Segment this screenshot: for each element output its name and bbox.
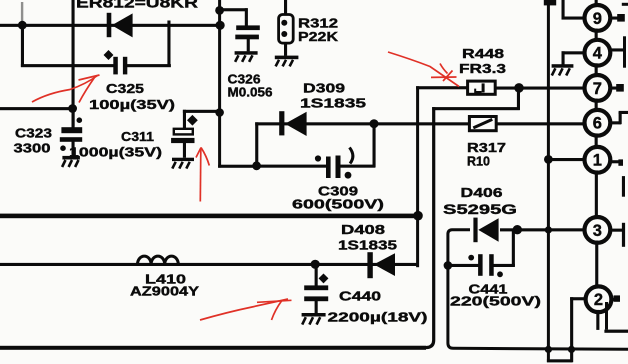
value M0.056 (228, 84, 273, 99)
wire vertical x72.9 full (72, 0, 75, 127)
wire D309 loop right vertical x374 (373, 122, 376, 167)
svg-text:C440: C440 (339, 288, 381, 303)
svg-text:1000µ(35V): 1000µ(35V) (69, 144, 162, 159)
label C323 (15, 126, 52, 141)
ground below C311 (172, 158, 194, 169)
svg-text:7: 7 (593, 80, 602, 98)
svg-text:C323: C323 (15, 126, 52, 141)
polarity diamond of C440 (319, 273, 329, 283)
svg-text:2: 2 (594, 291, 603, 309)
wire C311 branch from x219 (183, 110, 221, 130)
label ER812=U8KR (cut at top) (76, 0, 198, 12)
label C309 (318, 183, 358, 198)
value P22K (298, 29, 339, 44)
svg-text:D406: D406 (461, 185, 503, 200)
value 220(500V) (450, 294, 541, 309)
value S5295G (443, 202, 517, 217)
wire bottom bus y346.4 (0, 346, 426, 350)
node junction dot x256.5 y165.6 (252, 161, 261, 170)
label R317 (467, 140, 506, 155)
wire horizontal R317/D309 net to box (375, 122, 470, 125)
value 1S1835 of D309 (300, 95, 366, 110)
connector pin 2 (586, 286, 612, 312)
wire long bus y215.7 (0, 214, 419, 219)
wire C325 branch horizontal y65 (21, 64, 114, 67)
node junction dot x418 y215.7 (413, 211, 423, 221)
svg-text:220(500V): 220(500V) (450, 294, 541, 309)
inductor L410 (138, 256, 179, 264)
capacitor C440 (304, 264, 328, 313)
wire pin9 left L-wire (562, 0, 586, 20)
wire C441 right riser x516.5 (494, 230, 515, 267)
label D309 (303, 81, 345, 96)
value 1000u(35V) (69, 144, 162, 159)
resistor R317 (469, 117, 496, 131)
wire return path from R448 junction down and left (432, 88, 520, 110)
resistor R312 (279, 0, 294, 56)
wire pin1-pin3 (595, 170, 598, 219)
node junction dot x549.5 y349.3 (545, 346, 552, 353)
polarity diamond of C325 (104, 50, 114, 60)
value 3300 (14, 141, 51, 156)
label L410 (145, 271, 186, 286)
svg-text:D408: D408 (341, 222, 385, 237)
wire riser x168.5 up to y25 net (167, 21, 170, 68)
wire R448 left y87.5 (416, 86, 468, 89)
wire vertical x433.6 down to bottom bus (0, 107, 434, 348)
wire left vertical x22 down to C325 branch (21, 25, 24, 67)
wire D309 top y123.7 (255, 122, 375, 125)
wire pin4 right stub to edge bar (610, 36, 626, 67)
svg-text:4: 4 (593, 45, 603, 63)
wire R317 right to pin6 (496, 122, 585, 125)
wire pin7 right stub with terminal square (610, 84, 624, 92)
ground below C326 (235, 51, 258, 62)
wire horizontal y108 to C323 (0, 107, 74, 110)
wire R448 right to pin7 (495, 87, 585, 90)
connector pin 6 (585, 110, 611, 136)
svg-text:2200µ(18V): 2200µ(18V) (328, 309, 428, 324)
capacitor C309 (315, 148, 353, 179)
svg-text:R448: R448 (462, 46, 504, 61)
label D408 (341, 222, 385, 237)
wire pin9 right stub with terminal square (610, 14, 625, 22)
wire vertical x417.5 from R448 down to D408 wire (416, 86, 419, 267)
svg-text:9: 9 (593, 10, 602, 28)
wire pin6-pin1 (595, 133, 598, 149)
wire pin1 right stub (611, 159, 624, 165)
polarity diamond of C311 (187, 115, 198, 126)
connector pin 7 (585, 75, 611, 101)
ground below R312 (275, 56, 299, 67)
wire D406 loop left vertical x447.9 with corners (448, 230, 628, 350)
wire mid horizontal y264.3 L410/D408 (0, 263, 418, 266)
connector pin 4 (585, 40, 611, 66)
connector pin 1 (585, 147, 611, 173)
svg-text:1S1835: 1S1835 (338, 237, 397, 252)
label C325 (106, 81, 144, 96)
capacitor C325 (113, 57, 127, 75)
label C326 (228, 71, 261, 86)
node junction dot x570.8 y349.3 (568, 346, 575, 353)
label C440 (339, 288, 381, 303)
wire pin4-pin7 (595, 63, 598, 78)
node junction dot x517.5 y229.7 (513, 225, 522, 234)
label D406 (461, 185, 503, 200)
label R312 (298, 15, 338, 30)
connector pin 9 (585, 0, 611, 31)
svg-text:600(500V): 600(500V) (292, 197, 384, 212)
value 1S1835 of D408 (338, 237, 397, 252)
svg-text:R10: R10 (467, 153, 490, 168)
value FR3.3 (459, 61, 506, 76)
label C441 (469, 282, 508, 297)
diode top-left on y25 wire (107, 13, 133, 38)
svg-text:6: 6 (593, 115, 602, 133)
wire pin2 lower-right L mark (604, 330, 628, 333)
wire pin2 right stub with terminal (605, 295, 620, 329)
ground below C323 (62, 156, 80, 167)
red annotation arrow to R448 (388, 52, 459, 87)
svg-text:AZ9004Y: AZ9004Y (130, 284, 199, 299)
wire pin6 right stub hook (610, 111, 628, 125)
svg-text:1: 1 (593, 152, 602, 170)
wire vertical bus x548.3 (544, 0, 556, 362)
red annotation arrow to C440 (200, 299, 292, 320)
svg-text:3: 3 (593, 222, 602, 240)
node junction dot x220 y25 (216, 21, 225, 30)
node junction dot x519 y87.9 (514, 83, 524, 93)
node junction dot x219.5 y112 (215, 108, 224, 117)
wire right edge vertical x623.3 (622, 176, 625, 247)
wire pin7-pin6 (595, 99, 598, 113)
wire pin3 right stub (611, 229, 623, 232)
svg-text:FR3.3: FR3.3 (459, 61, 506, 76)
ground at pin4 (552, 64, 574, 75)
resistor R448 (468, 81, 496, 94)
node junction dot x219 y10 (215, 6, 224, 15)
node junction dot x374 y123.7 (370, 119, 379, 128)
wire C325 right to riser (127, 64, 171, 67)
svg-text:C325: C325 (106, 81, 144, 96)
wire C441 left y265.4 (447, 264, 479, 267)
value 600(500V) (292, 197, 384, 212)
svg-text:C311: C311 (121, 129, 154, 144)
label R448 (462, 46, 504, 61)
value 2200u(18V) (328, 309, 428, 324)
wire pin2 bottom stub (596, 310, 599, 330)
node junction dot x315 y264.3 (311, 260, 320, 269)
svg-text:1S1835: 1S1835 (300, 95, 366, 110)
diode D406 (473, 218, 498, 243)
wire top-right corner mark (622, 3, 628, 6)
svg-text:D309: D309 (303, 81, 345, 96)
capacitor C311 (171, 129, 194, 158)
svg-text:S5295G: S5295G (443, 202, 517, 217)
diode D408 (367, 252, 395, 278)
capacitor C441 (468, 254, 503, 277)
value R10 (467, 153, 490, 168)
wire top horizontal net y=25 (0, 24, 222, 27)
label C311 (121, 129, 154, 144)
wire pin4 left L-wire to ground (562, 51, 586, 64)
wire C309 bottom y165.6 (255, 165, 375, 168)
wire pin9-pin4 (595, 29, 598, 43)
wire pin3-pin2 (595, 241, 598, 289)
capacitor C323 (60, 109, 82, 157)
node junction dot bus-pin3 x548 y229.9 (545, 226, 552, 233)
diode D309 (279, 111, 306, 136)
wire bottom link y361 between bus and pin2 drop (547, 359, 573, 362)
node junction dot left x22 y25 (18, 2, 27, 30)
svg-text:ER812=U8KR: ER812=U8KR (76, 0, 198, 12)
ground below C440 (302, 313, 326, 325)
wire vertical x219 top to corner y166 (218, 0, 221, 168)
red annotation arrow to C325 (32, 75, 100, 103)
wire corner from x219 to C309 loop y165 (218, 165, 258, 168)
svg-text:P22K: P22K (298, 29, 339, 44)
wire pin1 left stub (548, 158, 585, 161)
node junction dot bus-pin1 x548.3 y159.8 (544, 155, 553, 164)
value 100u(35V) (89, 97, 175, 112)
wire D309 loop left vertical x256.6 (255, 122, 258, 167)
node junction dot x72 y108 (68, 104, 77, 113)
svg-text:M0.056: M0.056 (228, 84, 273, 99)
wire D406 right to pin3 (500, 228, 586, 231)
wire C326 branch top (220, 8, 248, 26)
node junction dot x447.9 y265.4 (444, 261, 453, 270)
value AZ9004Y (130, 284, 199, 299)
connector pin 3 (585, 217, 611, 243)
capacitor C326 (235, 25, 259, 51)
svg-text:100µ(35V): 100µ(35V) (89, 97, 175, 112)
wire pin2 left branch with drop x571.5 (570, 297, 587, 362)
svg-text:3300: 3300 (14, 141, 51, 156)
red annotation arrow to C311 (196, 148, 209, 202)
